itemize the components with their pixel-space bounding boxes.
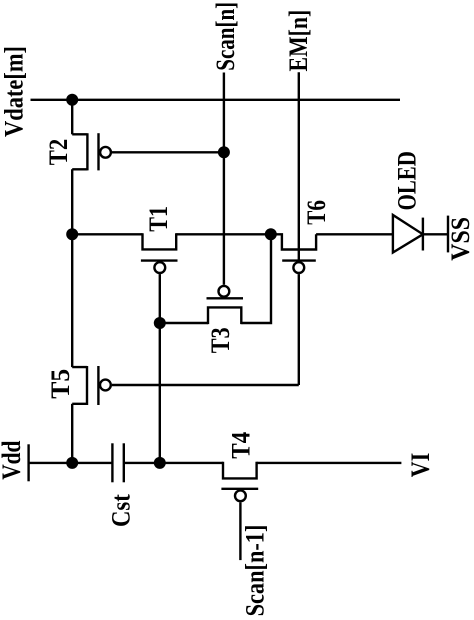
net VI label	[406, 453, 435, 478]
svg-text:Vdd: Vdd	[0, 440, 26, 480]
net Vdate[m] label	[0, 46, 29, 137]
svg-text:T1: T1	[144, 206, 173, 232]
node Scan/T2 gate junction dot	[218, 146, 230, 158]
wire T5 down to Vdd rail	[71, 404, 73, 463]
wire EM/T5 gate horizontal	[112, 384, 299, 386]
wire T3 drain up to node B	[241, 234, 271, 323]
wire T4 gate down	[239, 502, 241, 560]
net EM[n] label	[284, 10, 313, 72]
wire T6 gate down	[298, 274, 300, 385]
transistor T5	[72, 366, 111, 405]
wire left column from Vdate dot to T2	[71, 100, 73, 135]
node A dot	[66, 228, 78, 240]
svg-text:T3: T3	[206, 327, 235, 353]
net VSS label	[446, 217, 474, 261]
svg-text:VSS: VSS	[446, 217, 474, 261]
svg-text:VI: VI	[406, 453, 435, 478]
net Scan[n] label	[211, 2, 240, 71]
wire EM[n] vertical to T6 gate	[298, 72, 300, 262]
wire OLED cathode to VSS	[423, 233, 448, 235]
wire T2 gate to Scan[n]	[112, 151, 224, 153]
svg-text:Scan[n]: Scan[n]	[211, 2, 240, 71]
wire Vdate rail	[31, 99, 401, 101]
node B dot	[265, 228, 277, 240]
svg-text:T4: T4	[226, 432, 255, 459]
wire T1 to node B	[176, 233, 271, 235]
label T4	[226, 432, 255, 459]
node C dot	[154, 317, 166, 329]
wire T2 drain down to node A	[71, 169, 73, 234]
label T1	[144, 206, 173, 232]
node Vdate/T2 junction dot	[66, 94, 78, 106]
svg-text:T6: T6	[302, 200, 331, 225]
wire T3 source to node C	[160, 322, 208, 324]
wire Cst to node D	[124, 462, 160, 464]
svg-text:EM[n]: EM[n]	[284, 10, 313, 72]
transistor T2	[72, 133, 111, 170]
transistor T1	[141, 233, 178, 273]
transistor T3	[207, 286, 244, 324]
wire node C down to node D	[159, 323, 161, 463]
wire T6 to OLED anode	[316, 233, 393, 235]
label T6	[302, 200, 331, 225]
label T3	[206, 327, 235, 353]
label T5	[46, 369, 75, 399]
svg-text:Cst: Cst	[106, 494, 135, 527]
transistor T4	[221, 462, 258, 501]
wire T1 gate down to node C	[159, 274, 161, 323]
label T2	[44, 139, 73, 166]
wire Scan[n] vertical	[223, 73, 225, 285]
terminal Vdd tick	[27, 444, 29, 481]
net Vdd label	[0, 440, 26, 480]
svg-text:OLED: OLED	[392, 151, 421, 210]
wire Vdd rail left	[29, 462, 113, 464]
wire T4 to VI	[257, 462, 402, 464]
svg-text:Vdate[m]: Vdate[m]	[0, 46, 29, 137]
label OLED	[392, 151, 421, 210]
label Cst	[106, 494, 135, 527]
diode OLED	[393, 215, 423, 253]
transistor T6	[271, 234, 316, 273]
wire node A down to T5	[71, 234, 73, 367]
capacitor Cst	[112, 443, 123, 482]
svg-text:T5: T5	[46, 369, 75, 399]
svg-text:Scan[n-1]: Scan[n-1]	[240, 525, 269, 617]
svg-text:T2: T2	[44, 139, 73, 166]
node D dot	[154, 457, 166, 469]
net Scan[n-1] label	[240, 525, 269, 617]
wire node A to T1	[72, 233, 142, 235]
node Vdd/T5 dot	[66, 457, 78, 469]
terminal VSS tick	[447, 216, 449, 253]
wire rail node D to T4	[160, 462, 223, 464]
